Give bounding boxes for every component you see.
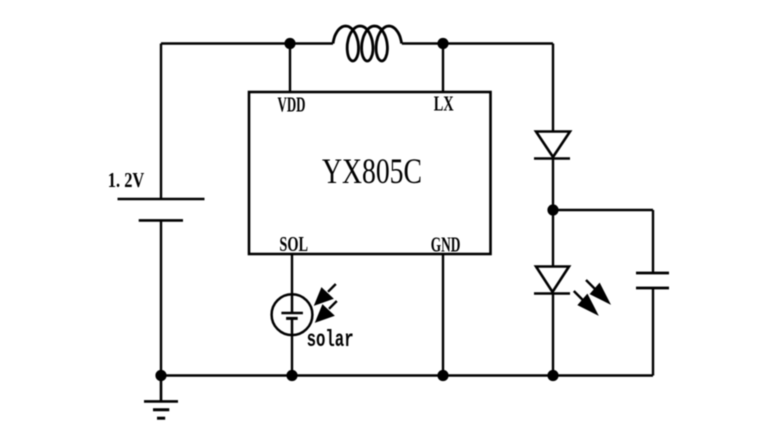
wire solar to bottom rail	[291, 335, 293, 376]
svg-text:VDD: VDD	[278, 93, 306, 117]
wire top rail right segment	[402, 42, 553, 44]
node junction dots	[155, 38, 558, 381]
svg-text:GND: GND	[431, 232, 461, 256]
wire LED to bottom rail	[552, 294, 554, 376]
diode D1	[534, 132, 570, 159]
wire top rail left segment	[161, 42, 333, 44]
wire SOL pin	[291, 254, 293, 295]
wire bottom rail	[161, 374, 653, 376]
svg-text:YX805C: YX805C	[322, 151, 422, 191]
wire battery positive to top-left corner	[160, 44, 162, 200]
LED emission arrows	[574, 280, 609, 313]
wire capacitor to bottom rail	[652, 288, 654, 376]
wire GND pin	[442, 254, 444, 376]
node diode-LED-cap junction	[547, 204, 558, 215]
wire node to LED	[552, 210, 554, 267]
node GND-rail junction	[437, 370, 448, 381]
solar cell internal battery symbol	[281, 295, 303, 335]
solar cell PV1 circle	[272, 294, 313, 335]
wire diode to node	[552, 159, 554, 211]
node LX junction	[437, 38, 448, 49]
inductor L1	[333, 26, 402, 61]
wire VDD pin	[289, 44, 291, 93]
node LED-rail junction	[547, 370, 558, 381]
svg-text:SOL: SOL	[279, 232, 308, 256]
LED D2	[534, 267, 570, 294]
wire node to capacitor horizontal	[553, 209, 653, 211]
capacitor C1	[636, 273, 669, 288]
svg-text:LX: LX	[434, 92, 454, 116]
solar light arrows	[316, 284, 337, 321]
battery BT1 1.2V	[118, 199, 205, 220]
wire capacitor top lead	[652, 210, 654, 273]
node solar-rail junction	[286, 370, 297, 381]
svg-text:solar: solar	[307, 327, 354, 353]
node VDD junction	[284, 38, 295, 49]
node ground junction	[155, 370, 166, 381]
IC U1 YX805C box	[249, 92, 491, 254]
ground	[144, 376, 178, 419]
wire battery negative to bottom rail	[160, 220, 162, 375]
wire diode anode drop	[552, 44, 554, 132]
wire LX pin	[442, 44, 444, 93]
svg-text:1. 2V: 1. 2V	[108, 168, 145, 192]
